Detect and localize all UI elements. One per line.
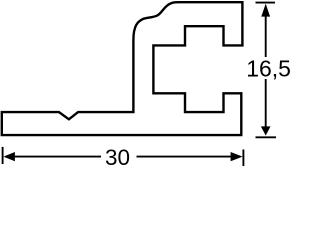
dimension 16,5: bottom arrowhead (down) [261, 126, 271, 135]
dimension 30: line left segment [13, 156, 101, 158]
dimension 30: right extension tick [242, 150, 244, 167]
dimension 16,5: bottom extension tick [256, 136, 277, 138]
dimension 30: left extension tick [2, 147, 4, 164]
dimension 16,5: line lower segment [265, 79, 267, 128]
dimension 30: line right segment [137, 156, 233, 158]
svg-text:30: 30 [105, 145, 130, 170]
svg-text:16,5: 16,5 [246, 56, 291, 82]
profile outline (extrusion cross-section with S-curve top and clip channel) [2, 2, 243, 135]
dimension 30: right arrowhead [231, 152, 243, 161]
dimension 16,5: line upper segment [265, 15, 267, 57]
dimension 16,5: top arrowhead (up) [261, 4, 270, 17]
dimension 16,5: top extension tick [256, 2, 276, 4]
dimension 30: left arrowhead [3, 152, 15, 161]
